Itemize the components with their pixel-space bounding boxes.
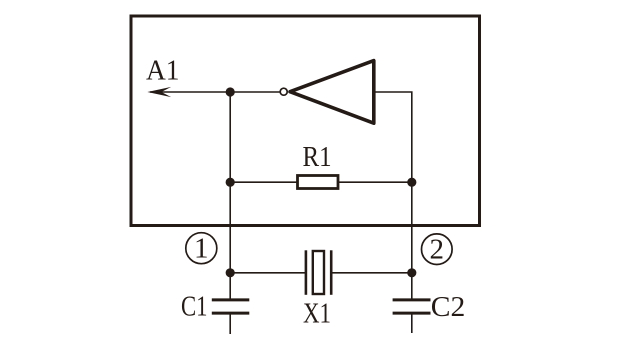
svg-text:C1: C1 xyxy=(181,291,208,323)
svg-text:R1: R1 xyxy=(303,141,332,173)
svg-text:X1: X1 xyxy=(303,298,331,330)
svg-text:C2: C2 xyxy=(431,291,466,323)
svg-text:1: 1 xyxy=(194,232,209,264)
svg-text:A1: A1 xyxy=(146,55,180,87)
svg-text:2: 2 xyxy=(430,233,445,265)
